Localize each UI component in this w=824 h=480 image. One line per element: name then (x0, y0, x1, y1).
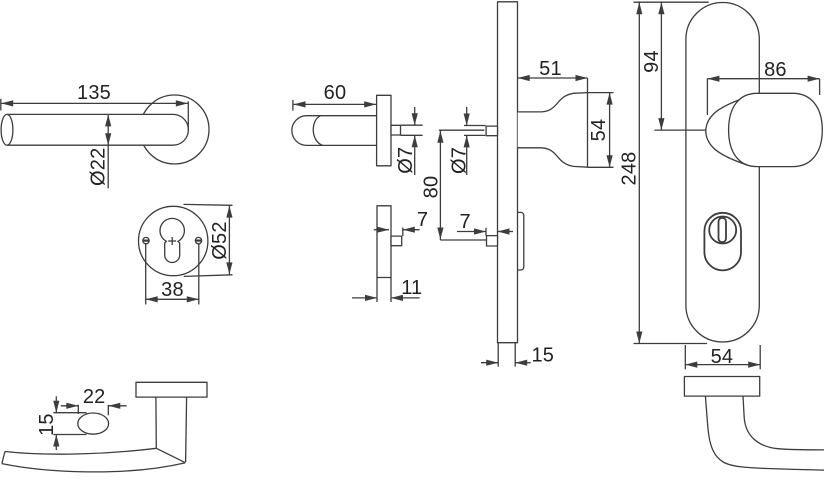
security plate (686, 2, 759, 342)
dimension 22 (grip width) (61, 386, 127, 415)
svg-text:86: 86 (764, 59, 787, 81)
grip section ellipse (78, 413, 109, 434)
dimension 80 (axis distance) (421, 130, 487, 240)
cylinder core circle (709, 217, 736, 244)
screw left (143, 237, 149, 243)
dimension 51 (knob projection) (518, 58, 588, 93)
dimension 248 (619, 2, 708, 343)
cylinder guard oval (704, 213, 741, 271)
dimension 94 (634, 2, 709, 130)
dimension 7 (cylinder stub) (457, 211, 513, 236)
screw right (195, 237, 201, 243)
dimension 54 (plate width) (685, 345, 760, 369)
svg-text:Ø7: Ø7 (395, 147, 417, 174)
neck/band junction (156, 448, 185, 462)
rosette neck (155, 397, 157, 448)
dimension diameter 22 (88, 114, 112, 188)
rosette side view (377, 95, 391, 166)
dimension 60 (293, 82, 377, 111)
center cross (168, 240, 176, 242)
dimension 54 (knob face height) (588, 93, 614, 168)
svg-text:135: 135 (77, 82, 111, 104)
svg-text:Ø7: Ø7 (449, 147, 471, 174)
handle band top curve (5, 448, 156, 454)
dimension 15 (grip height) (36, 396, 87, 450)
spindle rod (439, 129, 485, 131)
svg-text:54: 54 (588, 119, 610, 142)
lever end cap ellipse (1, 114, 13, 145)
plate top view (684, 377, 759, 397)
svg-text:7: 7 (460, 211, 471, 233)
svg-text:54: 54 (711, 346, 734, 368)
dimension 7 (stub length) (374, 209, 429, 236)
spindle stub plate side (486, 126, 497, 136)
dimension diameter 52 (184, 204, 233, 276)
dimension 86 (707, 59, 819, 115)
svg-text:11: 11 (401, 277, 422, 299)
svg-text:Ø52: Ø52 (209, 221, 231, 259)
rosette side rect (377, 206, 391, 278)
band left end cap (2, 452, 5, 464)
rosette top view plate (136, 382, 207, 397)
svg-text:15: 15 (36, 413, 58, 436)
backplate edge (498, 2, 518, 343)
cylinder stub plate side (487, 236, 498, 246)
grip inner end arc (313, 116, 322, 146)
dimension diameter 7 (spindle, handle side) (395, 107, 423, 175)
knob neck left contour (705, 396, 824, 470)
svg-text:22: 22 (83, 386, 106, 408)
svg-text:80: 80 (421, 176, 443, 199)
svg-text:60: 60 (324, 82, 347, 104)
knob body front view (729, 93, 823, 166)
knob neck right contour (743, 396, 824, 450)
spindle stub (391, 125, 401, 135)
grip capsule (292, 116, 377, 146)
euro profile keyhole (160, 218, 184, 262)
svg-text:38: 38 (161, 279, 184, 301)
cylinder body behind plate (518, 212, 524, 270)
key slot (719, 218, 727, 242)
cylinder stub (391, 236, 402, 246)
svg-text:248: 248 (619, 152, 641, 186)
escutcheon circle (139, 206, 208, 275)
svg-text:7: 7 (417, 209, 428, 231)
knob neck front view (706, 97, 747, 165)
dimension 135 (1, 82, 189, 131)
dimension 38 (146, 244, 199, 305)
dimension 15 (plate thickness) (481, 343, 554, 367)
handle band bottom curve (2, 463, 186, 472)
dimension diameter 7 (spindle, plate side) (449, 107, 486, 175)
rosette circle (140, 95, 209, 164)
svg-text:51: 51 (539, 58, 562, 80)
dimension 11 (rosette thickness) (352, 277, 422, 302)
svg-text:Ø22: Ø22 (88, 148, 110, 186)
knob side profile (518, 93, 588, 168)
svg-text:94: 94 (641, 50, 663, 73)
lever bar (7, 114, 188, 145)
svg-text:15: 15 (531, 345, 554, 367)
